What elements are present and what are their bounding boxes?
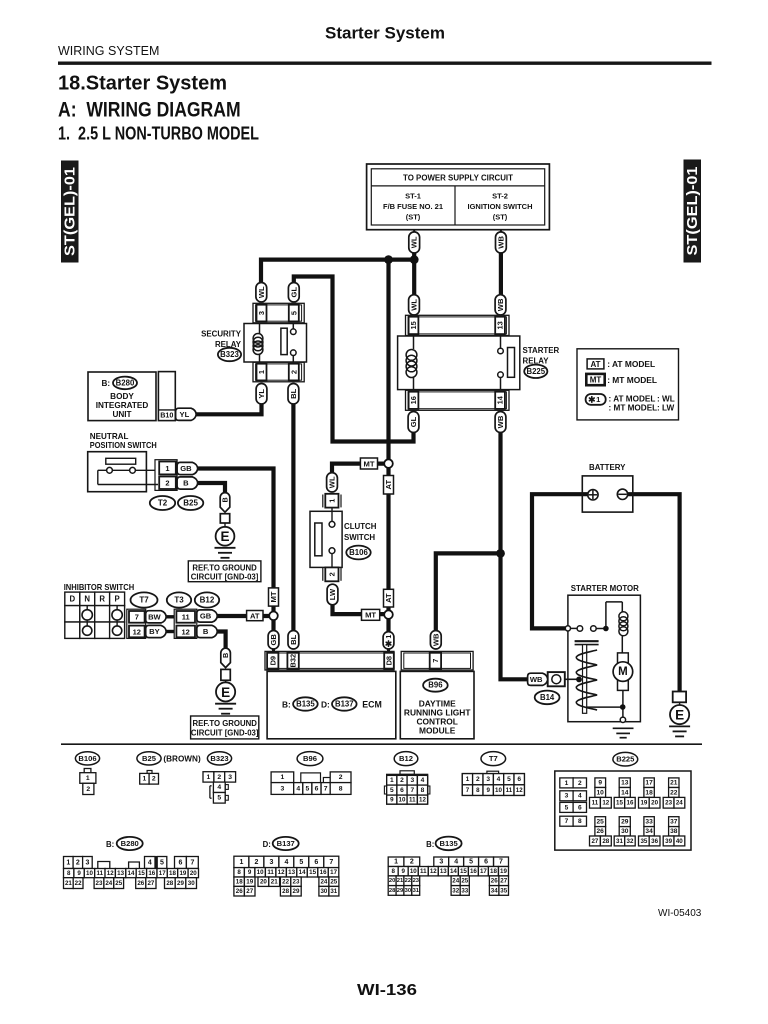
svg-text:5: 5 [565, 804, 569, 811]
wire GL security relay 5 to starter relay 16 [294, 277, 414, 442]
svg-text:13: 13 [621, 780, 629, 787]
svg-text:B280: B280 [121, 839, 139, 848]
svg-text:Starter System: Starter System [325, 24, 445, 43]
svg-text:: AT MODEL: : AT MODEL [607, 359, 655, 369]
svg-text:30: 30 [621, 828, 629, 835]
svg-text:CIRCUIT [GND-03]: CIRCUIT [GND-03] [191, 572, 259, 581]
svg-text:19: 19 [500, 868, 507, 875]
security relay box B323 [244, 324, 307, 363]
connector ref T2 [150, 496, 175, 510]
svg-text:B:: B: [282, 699, 291, 709]
svg-text:UNIT: UNIT [112, 410, 131, 419]
svg-text:5: 5 [469, 859, 473, 866]
wire color pill WB DRL 7 [430, 631, 441, 650]
header rule [58, 62, 712, 65]
svg-text:14: 14 [621, 789, 629, 796]
svg-text:B:: B: [102, 379, 111, 388]
connector ref B225 bottom [613, 752, 638, 766]
svg-text:TO POWER SUPPLY CIRCUIT: TO POWER SUPPLY CIRCUIT [403, 174, 513, 183]
svg-text:7: 7 [324, 785, 328, 792]
svg-text:STARTER: STARTER [523, 346, 560, 355]
svg-text:5: 5 [390, 787, 394, 794]
ground connector 2 [221, 669, 230, 680]
svg-text:18: 18 [169, 870, 176, 877]
clutch pin 1 [323, 494, 341, 508]
svg-text:24: 24 [676, 800, 683, 807]
svg-text:37: 37 [670, 819, 678, 826]
svg-text:15: 15 [616, 800, 623, 807]
security relay top connector pins 3,5 [253, 303, 304, 323]
svg-text:2: 2 [165, 479, 169, 488]
svg-text:1: 1 [390, 777, 394, 784]
svg-text:30: 30 [320, 888, 327, 895]
svg-text:GL: GL [409, 416, 418, 427]
wire battery positive to starter motor [532, 494, 589, 628]
svg-text:T2: T2 [158, 499, 168, 508]
svg-text:BL: BL [289, 388, 298, 398]
clutch pin 2 [323, 567, 341, 581]
svg-text:B96: B96 [428, 681, 443, 690]
svg-text:6: 6 [400, 787, 404, 794]
svg-text:16: 16 [627, 800, 634, 807]
wire BL security relay 2 to ECM B32 [291, 404, 295, 631]
svg-text:WI-05403: WI-05403 [658, 908, 702, 919]
svg-text:ST(GEL)-01: ST(GEL)-01 [62, 167, 78, 256]
svg-text:B106: B106 [78, 754, 96, 763]
ground symbol E 2 [216, 682, 235, 701]
svg-text:B: B [221, 497, 230, 502]
daytime running light control module box [400, 671, 474, 738]
wire color pill B to ground [220, 493, 230, 513]
wire color tag B [177, 477, 198, 489]
svg-text:30: 30 [188, 880, 195, 887]
connector ref B12 [195, 592, 219, 607]
svg-text:14: 14 [299, 869, 306, 876]
svg-text:22: 22 [282, 879, 289, 886]
svg-text:10: 10 [495, 787, 502, 794]
svg-text:3: 3 [565, 793, 569, 800]
svg-text:1. 2.5 L NON-TURBO MODEL: 1. 2.5 L NON-TURBO MODEL [58, 123, 259, 143]
svg-text:B25: B25 [142, 754, 157, 763]
svg-text:B137: B137 [277, 839, 295, 848]
svg-text:14: 14 [496, 395, 505, 404]
inhibitor connector pins 7,12 [127, 609, 146, 638]
svg-text:31: 31 [330, 888, 337, 895]
svg-text:B225: B225 [526, 367, 545, 376]
connector ref B12 bottom [394, 752, 418, 766]
svg-text:B12: B12 [200, 596, 215, 605]
svg-text:AT: AT [250, 611, 260, 620]
svg-text:B:: B: [426, 840, 434, 849]
svg-text:ST-1: ST-1 [405, 192, 421, 201]
svg-text:7: 7 [329, 859, 333, 866]
neutral switch connector pins 1,2 [155, 460, 177, 491]
svg-text:28: 28 [166, 880, 173, 887]
svg-text:1: 1 [384, 635, 393, 639]
svg-text:1: 1 [257, 370, 266, 374]
svg-text:1: 1 [86, 775, 90, 782]
svg-text:P: P [114, 595, 119, 604]
svg-text:3: 3 [281, 785, 285, 792]
svg-text:18: 18 [490, 868, 497, 875]
ground connector [220, 514, 229, 523]
svg-text:B14: B14 [540, 693, 555, 702]
svg-text:3: 3 [439, 859, 443, 866]
wire GB inhibitor switch to AT node [217, 614, 270, 618]
svg-text:7: 7 [135, 613, 139, 622]
svg-text:19: 19 [246, 879, 253, 886]
node inhibitor [269, 612, 278, 621]
svg-text:1: 1 [143, 776, 147, 783]
svg-text:29: 29 [293, 888, 300, 895]
svg-text:GB: GB [269, 634, 278, 646]
magnetic switch contacts [565, 626, 608, 632]
solenoid plunger [575, 641, 599, 713]
wire color pill YL pin1 [256, 384, 267, 405]
svg-text:E: E [221, 685, 230, 700]
ECM box [267, 671, 396, 738]
svg-text:7: 7 [190, 859, 194, 866]
svg-text:20: 20 [651, 800, 658, 807]
svg-text:21: 21 [397, 878, 404, 884]
wire color tag GB [197, 610, 218, 622]
wire WL branch down (AT/MT circuit) [386, 260, 390, 460]
svg-text:15: 15 [409, 321, 418, 329]
svg-text:D:: D: [321, 699, 330, 709]
svg-text:23: 23 [665, 800, 672, 807]
wire *1 node to ECM D8 [386, 619, 390, 632]
svg-text:17: 17 [159, 870, 166, 877]
svg-text:13: 13 [117, 870, 124, 877]
svg-text:32: 32 [627, 838, 634, 845]
connector ref B106 bottom [75, 752, 99, 765]
svg-text:BW: BW [148, 612, 161, 621]
svg-text:8: 8 [421, 787, 425, 794]
svg-text:REF.TO GROUND: REF.TO GROUND [192, 563, 257, 572]
wire color tag YL [176, 408, 197, 420]
svg-text:WI-136: WI-136 [357, 982, 417, 999]
wire color pill WB pin14 [495, 412, 506, 433]
AT model box vertical [384, 476, 394, 495]
svg-text:18: 18 [236, 879, 243, 886]
svg-text:17: 17 [330, 869, 337, 876]
ground connector battery [673, 692, 686, 703]
wire color pill WL below fuse [409, 232, 420, 253]
svg-text:24: 24 [320, 879, 327, 886]
wire B inhibitor switch to ground [217, 632, 226, 650]
starter relay top connector pins 15,13 [406, 315, 510, 335]
svg-text:B:: B: [106, 840, 114, 849]
svg-text:28: 28 [389, 888, 396, 894]
svg-text:10: 10 [86, 870, 93, 877]
svg-text:B135: B135 [296, 700, 315, 709]
svg-text:REF.TO GROUND: REF.TO GROUND [192, 719, 257, 728]
svg-text:4: 4 [497, 776, 501, 783]
svg-text:12: 12 [430, 868, 437, 875]
junction dot WB branch [496, 549, 505, 558]
svg-text:21: 21 [65, 880, 72, 887]
svg-text:16: 16 [470, 868, 477, 875]
svg-text:5: 5 [217, 795, 221, 802]
svg-text:F/B FUSE NO. 21: F/B FUSE NO. 21 [383, 202, 443, 211]
svg-text:GB: GB [180, 464, 192, 473]
svg-text:WL: WL [257, 286, 266, 298]
wire WL horizontal to security relay [261, 260, 414, 283]
connector ref B225 [524, 365, 547, 378]
svg-text:D9: D9 [268, 656, 277, 665]
svg-text:B25: B25 [183, 499, 198, 508]
motor M [613, 653, 633, 691]
svg-text:2: 2 [76, 859, 80, 866]
svg-text:27: 27 [500, 878, 507, 885]
wire WB from ignition switch down [500, 230, 502, 233]
svg-text:9: 9 [486, 787, 490, 794]
junction dot WL branch [384, 255, 393, 264]
wire color pill *1 ECM D8 [383, 632, 394, 649]
svg-text:WL: WL [410, 299, 419, 311]
svg-text:4: 4 [284, 859, 288, 866]
connector view T7 [462, 771, 524, 795]
svg-text:28: 28 [282, 888, 289, 895]
svg-text:CIRCUIT [GND-03]: CIRCUIT [GND-03] [191, 728, 259, 737]
svg-text:33: 33 [461, 887, 468, 894]
legend box [577, 349, 679, 420]
svg-text:22: 22 [75, 880, 82, 887]
svg-text:23: 23 [413, 878, 420, 884]
svg-text:12: 12 [278, 869, 285, 876]
svg-text:B32: B32 [289, 654, 298, 668]
svg-text:SECURITY: SECURITY [201, 330, 242, 339]
svg-text:(BROWN): (BROWN) [163, 754, 201, 763]
svg-text:8: 8 [339, 785, 343, 792]
svg-text:5: 5 [160, 859, 164, 866]
svg-text:B280: B280 [116, 378, 135, 387]
svg-text:4: 4 [148, 859, 152, 866]
svg-text:6: 6 [314, 859, 318, 866]
svg-text:10: 10 [597, 789, 605, 796]
svg-text:11: 11 [409, 797, 416, 804]
svg-text:GL: GL [289, 287, 298, 298]
svg-text:5: 5 [507, 776, 511, 783]
svg-text:32: 32 [452, 887, 459, 894]
svg-text:23: 23 [96, 880, 103, 887]
svg-text:AT: AT [384, 480, 393, 490]
svg-text:INHIBITOR SWITCH: INHIBITOR SWITCH [64, 582, 135, 592]
svg-text:INTEGRATED: INTEGRATED [96, 401, 149, 410]
wire battery negative to ground [627, 494, 680, 691]
connector view B225 [555, 771, 691, 850]
svg-text:4: 4 [578, 793, 582, 800]
svg-text:M: M [618, 666, 628, 678]
svg-text:SWITCH: SWITCH [344, 533, 375, 542]
svg-text:D:: D: [263, 840, 271, 849]
svg-text:7: 7 [499, 859, 503, 866]
svg-text:BL: BL [289, 634, 298, 644]
harness connector pins 11,12 [174, 609, 197, 638]
svg-text:17: 17 [480, 868, 487, 875]
svg-text:: WL: : WL [657, 395, 675, 404]
svg-text:ST(GEL)-01: ST(GEL)-01 [685, 167, 701, 256]
wire color tag BY [146, 625, 167, 637]
wire MT branch to clutch switch [332, 464, 385, 473]
connector ref T3 [167, 592, 191, 607]
svg-text:29: 29 [621, 819, 629, 826]
svg-text:B106: B106 [349, 548, 368, 557]
svg-text:3: 3 [257, 311, 266, 315]
svg-text:1: 1 [165, 464, 169, 473]
svg-text:7: 7 [565, 818, 569, 825]
svg-text:WL: WL [328, 476, 337, 488]
svg-text:31: 31 [616, 838, 623, 845]
svg-text:36: 36 [651, 838, 658, 845]
svg-text:2: 2 [254, 859, 258, 866]
wire color pill WL pin3 [256, 283, 267, 303]
svg-text:35: 35 [640, 838, 647, 845]
svg-text:8: 8 [237, 869, 241, 876]
svg-text:B135: B135 [440, 839, 459, 848]
svg-text:B12: B12 [399, 754, 413, 763]
svg-text:8: 8 [578, 818, 582, 825]
svg-text:27: 27 [246, 888, 253, 895]
svg-text:2: 2 [578, 780, 582, 787]
svg-text:22: 22 [670, 789, 678, 796]
ref to ground circuit box 2 [191, 716, 259, 739]
svg-text:13: 13 [496, 321, 505, 329]
svg-text:9: 9 [248, 869, 252, 876]
ECM connector pins D9,B32,D8 [265, 651, 394, 670]
svg-text:19: 19 [640, 800, 647, 807]
svg-text:23: 23 [293, 879, 300, 886]
svg-text:25: 25 [115, 880, 122, 887]
connector view B96 [271, 772, 351, 794]
svg-text:40: 40 [676, 838, 683, 845]
svg-text:3: 3 [228, 774, 232, 781]
connector view B280 [64, 857, 199, 889]
svg-text:2: 2 [400, 777, 404, 784]
DRL connector pin 7 [401, 651, 473, 670]
svg-text:12: 12 [107, 870, 114, 877]
svg-text:39: 39 [665, 838, 672, 845]
svg-text:22: 22 [405, 878, 411, 884]
svg-text:WB: WB [431, 633, 440, 646]
wire WL from fuse down [413, 230, 415, 233]
svg-text:2: 2 [476, 776, 480, 783]
svg-text:20: 20 [260, 879, 267, 886]
wire color pill WL pin15 [409, 295, 420, 315]
svg-text:16: 16 [148, 870, 155, 877]
svg-text:11: 11 [506, 787, 513, 794]
svg-text:12: 12 [133, 627, 141, 636]
svg-text:12: 12 [516, 787, 523, 794]
svg-text:11: 11 [182, 613, 190, 622]
svg-text:18: 18 [645, 789, 653, 796]
neutral position switch box [88, 452, 158, 492]
svg-text:AT: AT [590, 360, 600, 369]
connector ref B25 bottom [137, 752, 161, 765]
wire color pill GB ECM D9 [268, 631, 279, 650]
svg-text:16: 16 [320, 869, 327, 876]
svg-text:: AT MODEL: : AT MODEL [609, 395, 656, 404]
svg-text:3: 3 [269, 859, 273, 866]
svg-text:WB: WB [530, 675, 543, 684]
svg-text:9: 9 [598, 780, 602, 787]
svg-text:6: 6 [517, 776, 521, 783]
svg-text:11: 11 [592, 800, 599, 807]
svg-text:6: 6 [315, 785, 319, 792]
wire color tag WB [528, 673, 548, 685]
wire color pill GL pin5 [288, 283, 299, 303]
connector ref B96 bottom [297, 752, 323, 766]
svg-text:4: 4 [454, 859, 458, 866]
svg-text:25: 25 [461, 878, 468, 885]
svg-text:10: 10 [257, 869, 264, 876]
svg-text:3: 3 [85, 859, 89, 866]
svg-text:27: 27 [147, 880, 154, 887]
svg-text:19: 19 [179, 870, 186, 877]
wire color pill BL pin2 [288, 384, 299, 405]
svg-text:31: 31 [413, 888, 420, 894]
svg-text:9: 9 [390, 797, 394, 804]
node MT/AT top [384, 459, 393, 468]
connector view B12 [384, 771, 430, 804]
svg-text:BY: BY [149, 627, 160, 636]
svg-text:29: 29 [397, 888, 404, 894]
svg-text:CLUTCH: CLUTCH [344, 522, 377, 531]
svg-text:MT: MT [365, 611, 376, 620]
svg-text:YL: YL [257, 389, 266, 399]
svg-text:B323: B323 [220, 350, 239, 359]
svg-text:33: 33 [645, 819, 653, 826]
svg-text:BODY: BODY [110, 392, 134, 401]
svg-text:6: 6 [178, 859, 182, 866]
svg-text:26: 26 [491, 878, 498, 885]
svg-text:E: E [220, 529, 229, 544]
junction dot WL main [410, 255, 419, 264]
svg-text:25: 25 [597, 819, 605, 826]
svg-text:: LW: : LW [657, 404, 675, 413]
separator line [61, 743, 702, 745]
svg-text:: MT MODEL: : MT MODEL [607, 375, 657, 385]
wire color pill BL ECM B32 [288, 631, 299, 650]
svg-text:IGNITION SWITCH: IGNITION SWITCH [468, 202, 533, 211]
AT model box vertical 2 [384, 589, 394, 607]
svg-text:14: 14 [450, 868, 457, 875]
svg-text:1: 1 [466, 776, 470, 783]
clutch switch box B106 [310, 508, 342, 568]
svg-text:N: N [84, 595, 90, 604]
svg-text:MT: MT [269, 591, 278, 602]
svg-text:9: 9 [77, 870, 81, 877]
svg-text:GB: GB [200, 612, 212, 621]
svg-text:5: 5 [289, 311, 298, 315]
svg-text:11: 11 [267, 869, 274, 876]
svg-text:12: 12 [419, 797, 426, 804]
wire WB branch to DRL module [436, 553, 501, 630]
wire color tag GB [177, 462, 198, 474]
MT model box [360, 458, 377, 469]
wire color pill B to ground 2 [221, 648, 231, 667]
svg-text:10: 10 [410, 868, 417, 875]
svg-text:B: B [221, 653, 230, 658]
svg-text:2: 2 [289, 370, 298, 374]
svg-text:7: 7 [431, 659, 440, 663]
svg-text:17: 17 [645, 780, 653, 787]
connector view B323 [203, 772, 236, 803]
node MT/AT bottom [384, 610, 393, 619]
svg-text:16: 16 [409, 396, 418, 404]
security relay bottom connector pins 1,2 [253, 362, 304, 382]
wire color tag B [197, 625, 218, 637]
